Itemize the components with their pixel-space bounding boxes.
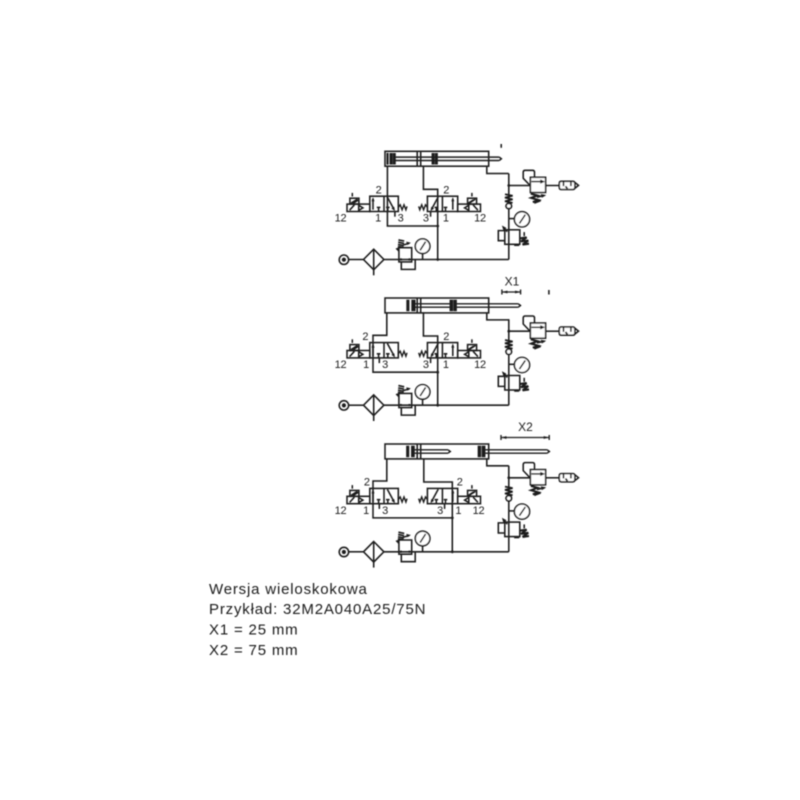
svg-text:2: 2 <box>443 184 449 196</box>
valve V5 3/2 <box>347 485 407 504</box>
position tick <box>500 144 502 148</box>
final position tick <box>548 290 550 295</box>
svg-text:3: 3 <box>398 213 404 225</box>
svg-text:3: 3 <box>382 505 388 517</box>
valve V2 exhaust stub <box>430 212 432 217</box>
svg-text:X2 = 75 mm: X2 = 75 mm <box>209 642 298 659</box>
svg-text:1: 1 <box>443 213 449 225</box>
valve V4 3/2 <box>419 339 481 358</box>
right column circuit 1 <box>498 170 578 259</box>
svg-text:X1 = 25 mm: X1 = 25 mm <box>209 622 298 639</box>
valve V1 exhaust stub <box>394 212 396 217</box>
svg-text:2: 2 <box>457 477 463 489</box>
svg-text:Wersja wieloskokowa: Wersja wieloskokowa <box>209 581 368 598</box>
wire: cyl mid port to valve V2, down to rail <box>423 166 437 259</box>
port labels circuit 2 <box>335 331 486 371</box>
svg-text:12: 12 <box>335 359 347 371</box>
svg-text:2: 2 <box>364 477 370 489</box>
svg-text:12: 12 <box>474 213 486 225</box>
svg-text:12: 12 <box>335 505 347 517</box>
caption text <box>209 581 426 659</box>
wire: cyl left port to valve V1 and U-link <box>387 166 437 226</box>
svg-text:3: 3 <box>382 359 388 371</box>
svg-text:Przykład: 32M2A040A25/75N: Przykład: 32M2A040A25/75N <box>209 601 426 618</box>
cylinder A2 (first stroke X1) <box>385 290 549 313</box>
valve V3 3/2 <box>347 339 407 358</box>
svg-text:1: 1 <box>443 359 449 371</box>
dimension X2 <box>501 435 549 440</box>
svg-text:1: 1 <box>363 505 369 517</box>
svg-text:X1: X1 <box>505 275 520 289</box>
svg-text:3: 3 <box>423 213 429 225</box>
port labels circuit 3 <box>335 477 485 517</box>
cylinder A3 (second stroke X2) <box>385 444 549 459</box>
svg-text:2: 2 <box>376 184 382 196</box>
svg-text:X2: X2 <box>518 420 533 434</box>
port labels circuit 1 <box>335 184 486 224</box>
dimension X1 <box>502 290 521 295</box>
svg-text:12: 12 <box>474 359 486 371</box>
valve V6 3/2 <box>419 485 481 504</box>
junction dots <box>436 225 439 228</box>
svg-text:2: 2 <box>362 331 368 343</box>
cylinder A1 (multi-position, retracted) <box>385 144 501 166</box>
svg-text:12: 12 <box>473 505 485 517</box>
svg-text:2: 2 <box>443 331 449 343</box>
wire: cyl right port to right column <box>487 166 509 173</box>
svg-text:1: 1 <box>363 359 369 371</box>
svg-text:1: 1 <box>375 213 381 225</box>
valve V2 3/2 <box>419 193 481 212</box>
valve V1 3/2 <box>347 193 407 212</box>
supply set circuit 1 <box>339 239 509 275</box>
svg-text:3: 3 <box>423 359 429 371</box>
svg-text:1: 1 <box>455 505 461 517</box>
svg-text:12: 12 <box>335 213 347 225</box>
svg-text:3: 3 <box>437 505 443 517</box>
